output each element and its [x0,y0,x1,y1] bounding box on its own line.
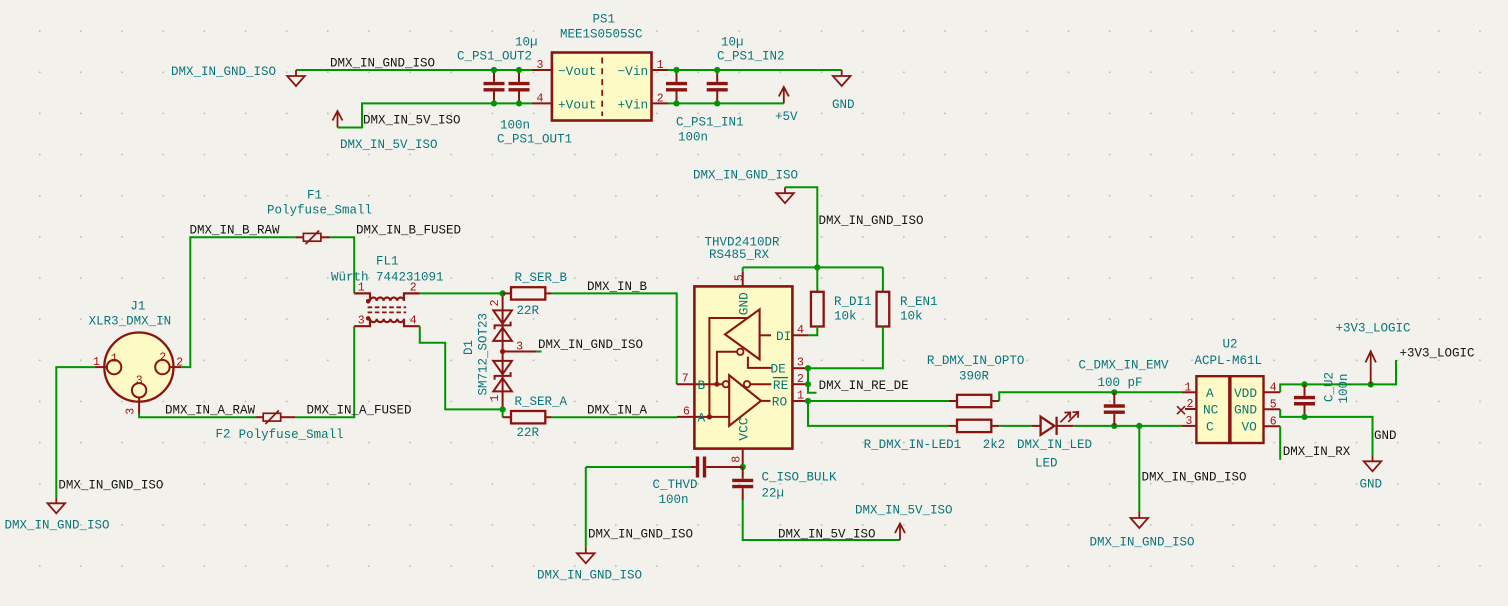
D1 pin 3 stub [503,351,537,353]
junction [673,100,679,106]
junction C_U2 top [1301,381,1307,387]
svg-text:7: 7 [682,373,689,386]
ground GND top-right [833,70,851,86]
junction GND rail [814,264,820,270]
junction RO [805,398,811,404]
FL1 core dashed lines [368,307,407,312]
power module PS1 MEE1S0505SC body [552,53,652,121]
svg-text:2: 2 [159,352,166,365]
svg-text:5: 5 [733,274,746,281]
svg-text:R_SER_B: R_SER_B [515,271,568,285]
LED DMX_IN_LED triangle [1041,417,1055,435]
R_DMX_IN-LED1 left lead [949,425,957,427]
svg-text:DMX_IN_LED: DMX_IN_LED [1017,438,1092,452]
D1 body line [502,293,504,409]
svg-text:10µ: 10µ [515,35,538,49]
junction +3V3 arrow [1368,381,1374,387]
svg-text:R_SER_A: R_SER_A [515,395,568,409]
THVD pin 3 stub [792,367,808,369]
svg-text:U2: U2 [1223,337,1238,351]
svg-text:10k: 10k [900,309,923,323]
THVD receiver input bubble (B) [723,381,729,387]
wire R_DI1 bottom to pin4 [809,327,818,336]
svg-text:R_DI1: R_DI1 [834,295,872,309]
wire pin5 drop [742,267,744,271]
U2 pin 2 no-connect cross [1177,406,1185,414]
svg-text:RS485_RX: RS485_RX [709,248,770,262]
ground U2 [1364,455,1382,471]
svg-text:DMX_IN_5V_ISO: DMX_IN_5V_ISO [778,528,876,542]
svg-text:VO: VO [1242,419,1258,434]
svg-text:DMX_IN_GND_ISO: DMX_IN_GND_ISO [1142,471,1247,485]
svg-text:PS1: PS1 [593,12,616,26]
svg-text:GND: GND [1360,477,1383,491]
J1 pin 1 stub [95,366,107,368]
svg-text:C_THVD: C_THVD [653,478,698,492]
wire R_SER_A jog [502,409,504,417]
svg-text:10µ: 10µ [721,35,744,49]
svg-text:GND: GND [736,292,751,315]
svg-text:3: 3 [358,315,365,328]
fuse F1 left lead [296,236,304,238]
LED emission arrows [1060,412,1078,422]
THVD node A dot [707,414,712,419]
svg-text:1: 1 [657,59,664,72]
svg-text:LED: LED [1035,456,1058,470]
resistor R_EN1 [877,292,890,327]
THVD pin 7 stub [677,383,695,385]
PS1 isolation dashed divider [601,58,603,117]
svg-text:6: 6 [683,405,690,418]
svg-text:DMX_IN_5V_ISO: DMX_IN_5V_ISO [340,138,438,152]
wire FL1 pin4 to R_SER_A [420,326,503,409]
wire VDD net [1280,360,1396,392]
svg-text:A: A [698,411,706,426]
junction [714,67,720,73]
wire FL1 pin2 to R_SER_B [420,292,503,294]
svg-text:DI: DI [776,329,791,344]
wire DMX_IN_B_RAW [181,237,295,367]
wire to LED [999,425,1032,427]
svg-text:DE: DE [771,362,787,377]
D1 upper TVS pair [493,310,512,341]
svg-text:B: B [698,378,706,393]
wire LED cathode net [1073,425,1182,427]
svg-text:1: 1 [358,282,365,295]
svg-text:3: 3 [1186,415,1193,428]
power flag +3V3_LOGIC arrow [1366,351,1376,384]
svg-text:10k: 10k [834,309,857,323]
svg-text:SM712_SOT23: SM712_SOT23 [476,313,490,396]
THVD driver inverting output line [717,352,737,384]
junction EMV top [1111,389,1117,395]
THVD node B dot [714,382,719,387]
PS1 pin 4 stub [532,102,552,104]
RE overline [773,377,788,379]
svg-text:2: 2 [489,299,502,306]
svg-text:DMX_IN_B_RAW: DMX_IN_B_RAW [190,224,281,238]
wire GND rail over THVD [743,266,883,268]
svg-text:1: 1 [797,390,804,403]
J1 pin 2 stub [170,366,182,368]
choke FL1 bottom winding [354,319,420,327]
svg-text:C_PS1_IN1: C_PS1_IN1 [676,115,744,129]
polyfuse F2 [263,410,281,424]
J1 pin 3 contact circle [132,383,146,397]
svg-text:C_U2: C_U2 [1323,372,1337,402]
svg-text:DMX_IN_RX: DMX_IN_RX [1283,445,1351,459]
LED cathode lead [1057,425,1074,427]
svg-text:1: 1 [489,395,502,402]
svg-text:VDD: VDD [1234,386,1257,401]
svg-text:+Vin: +Vin [618,97,649,112]
junction [516,67,522,73]
svg-text:2: 2 [657,93,664,106]
J1 pin 2 contact circle [155,360,169,374]
svg-text:DMX_IN_GND_ISO: DMX_IN_GND_ISO [819,214,924,228]
wire opto anode [999,392,1182,401]
capacitor C_PS1_IN2 [707,70,728,103]
svg-text:DMX_IN_GND_ISO: DMX_IN_GND_ISO [693,168,798,182]
junction gnd drop [1136,423,1142,429]
wire DMX_IN_A_RAW [139,414,255,417]
THVD receiver triangle [729,375,761,426]
svg-text:−Vin: −Vin [618,64,649,79]
wire THVD GND net [785,187,817,267]
LED anode lead [1032,425,1041,427]
J1 pin 3 stub [138,398,140,414]
svg-text:RE: RE [773,378,789,393]
svg-text:R_DMX_IN-LED1: R_DMX_IN-LED1 [864,438,962,452]
THVD A line [694,416,729,418]
fuse F2 left lead [255,416,263,418]
THVD driver non-inverting output line [709,318,747,417]
svg-text:F2: F2 [216,428,231,442]
resistor R_DMX_IN_OPTO [957,395,991,407]
svg-text:3: 3 [537,59,544,72]
junction D1 top [500,290,506,296]
svg-text:8: 8 [731,456,744,463]
THVD DI line [760,334,771,336]
junction DE [805,365,811,371]
R_SER_A left lead [503,416,511,418]
resistor R_SER_B [511,287,545,299]
svg-text:−Vout: −Vout [558,64,596,79]
svg-text:C_DMX_IN_EMV: C_DMX_IN_EMV [1079,359,1170,373]
wire RO to R_DMX_IN_OPTO [808,400,949,402]
wire J1 pin1 to ground [56,367,95,497]
wire R_EN1 bottom to pin3 [808,327,883,369]
svg-text:4: 4 [537,93,544,106]
capacitor C_THVD [691,457,743,478]
power flag DMX_IN_5V_ISO arrow (right) [895,524,905,541]
svg-text:DMX_IN_A_FUSED: DMX_IN_A_FUSED [307,404,412,418]
svg-text:A: A [1206,386,1214,401]
resistor R_DI1 [811,292,824,327]
svg-text:Polyfuse_Small: Polyfuse_Small [267,204,372,218]
THVD pin 4 stub [792,334,808,336]
wire D1 pin3 to label [536,351,541,353]
svg-text:C_ISO_BULK: C_ISO_BULK [762,470,838,484]
ground above THVD [776,187,794,203]
svg-text:3: 3 [124,408,137,415]
choke FL1 top winding [354,293,420,301]
svg-text:VCC: VCC [736,417,751,440]
U2 pin 6 stub [1264,425,1281,427]
svg-text:DMX_IN_GND_ISO: DMX_IN_GND_ISO [330,56,435,70]
wire DMX_IN_5V_ISO bottom rail to PS1 [338,103,532,127]
PS1 pin 2 stub [652,102,669,104]
PS1 pin 1 stub [652,69,669,71]
svg-text:D1: D1 [462,340,476,355]
svg-text:DMX_IN_GND_ISO: DMX_IN_GND_ISO [1090,535,1195,549]
svg-text:DMX_IN_GND_ISO: DMX_IN_GND_ISO [58,478,163,492]
wire DMX_IN_B_FUSED [330,237,354,293]
svg-text:100n: 100n [659,493,689,507]
wire LED gnd drop [1138,426,1140,512]
R_DMX_IN_OPTO right lead [991,400,999,402]
connector J1 XLR3_DMX_IN body [104,333,173,402]
ground top-left [287,70,305,86]
svg-text:DMX_IN_B: DMX_IN_B [587,280,648,294]
THVD pin 2 stub [792,383,808,385]
wire C_ISO_BULK to 5V [743,500,900,540]
wire R_EN1 top lead [882,267,884,291]
power flag DMX_IN_5V_ISO arrow [333,111,343,128]
svg-text:Würth 744231091: Würth 744231091 [331,270,444,284]
THVD pin 1 stub [792,400,808,402]
THVD driver triangle [725,309,760,359]
svg-text:+5V: +5V [775,110,798,124]
svg-text:390R: 390R [959,369,990,383]
capacitor C_PS1_IN1 [666,70,687,103]
svg-text:+3V3_LOGIC: +3V3_LOGIC [1400,346,1475,360]
FL1 polarity dot bottom [366,316,371,321]
junction VCC pin8 [740,464,746,470]
junction C_U2 bottom [1301,414,1307,420]
U2 pin 4 stub [1264,391,1281,393]
LED cathode bar [1055,417,1057,435]
svg-text:2: 2 [1187,398,1194,411]
resistor R_SER_A [511,411,545,423]
wire U2 GND net [1280,409,1372,455]
R_DMX_IN-LED1 right lead [991,425,999,427]
svg-text:22R: 22R [517,304,540,318]
optocoupler U2 left cell [1196,376,1229,443]
svg-text:1: 1 [1185,381,1192,394]
svg-text:GND: GND [832,98,855,112]
svg-text:DMX_IN_A: DMX_IN_A [587,404,648,418]
svg-text:100 pF: 100 pF [1098,376,1143,390]
svg-text:DMX_IN_GND_ISO: DMX_IN_GND_ISO [5,518,110,532]
U2 pin 5 stub [1264,408,1281,410]
svg-text:DMX_IN_5V_ISO: DMX_IN_5V_ISO [363,113,461,127]
junction [714,100,720,106]
wire C_THVD left [586,466,691,468]
THVD RO line [761,400,771,402]
svg-text:DMX_IN_GND_ISO: DMX_IN_GND_ISO [537,568,642,582]
svg-text:+Vout: +Vout [558,97,596,112]
svg-text:100n: 100n [1337,373,1351,403]
capacitor C_DMX_IN_EMV [1104,392,1125,426]
svg-text:4: 4 [797,324,804,337]
resistor R_DMX_IN-LED1 [957,420,991,432]
svg-text:2: 2 [410,282,417,295]
svg-text:1: 1 [111,353,118,366]
wire DMX_IN_GND_ISO top rail [296,69,532,71]
THVD RE line [750,383,771,385]
svg-text:DMX_IN_GND_ISO: DMX_IN_GND_ISO [171,65,276,79]
R_DMX_IN_OPTO left lead [949,400,957,402]
junction RE [805,381,811,387]
polyfuse F1 [303,231,321,245]
svg-text:4: 4 [410,315,417,328]
U2 pin 3 stub [1182,425,1196,427]
R_SER_B left lead [503,292,511,294]
svg-text:MEE1S0505SC: MEE1S0505SC [560,27,643,41]
svg-text:DMX_IN_GND_ISO: DMX_IN_GND_ISO [588,528,693,542]
wire DMX_IN_A_FUSED [295,326,354,417]
svg-text:R_EN1: R_EN1 [900,295,938,309]
svg-text:4: 4 [1270,381,1277,394]
wire RO branch down [808,401,949,426]
svg-text:3: 3 [136,374,143,387]
capacitor C_U2 [1294,384,1315,417]
PS1 pin 3 stub [532,69,552,71]
wire DMX_IN_A [552,416,677,418]
THVD RE bubble [744,381,750,387]
wire DMX_IN_RX [1279,426,1281,460]
wire +5V input top rail [668,69,842,71]
D1 pin3 junction dot [500,349,505,354]
svg-text:22R: 22R [517,426,540,440]
svg-text:GND: GND [1374,429,1397,443]
svg-text:3: 3 [797,357,804,370]
junction D1 bottom [500,406,506,412]
fuse F1 right lead [321,236,330,238]
junction EMV bottom [1111,423,1117,429]
capacitor C_PS1_OUT2 [484,70,505,103]
svg-text:RO: RO [772,395,788,410]
power flag +5V arrow [779,87,789,104]
svg-text:DMX_IN_5V_ISO: DMX_IN_5V_ISO [855,503,953,517]
junction [491,100,497,106]
THVD driver inverting bubble [737,349,743,355]
THVD pin 8 stub [742,449,744,467]
svg-text:2k2: 2k2 [983,438,1006,452]
svg-text:C_PS1_IN2: C_PS1_IN2 [717,49,785,63]
svg-text:DMX_IN_B_FUSED: DMX_IN_B_FUSED [356,224,461,238]
junction [491,67,497,73]
svg-text:5: 5 [1270,398,1277,411]
R_SER_B right lead [545,292,551,294]
U2 pin 2 stub [1185,408,1196,410]
svg-text:FL1: FL1 [376,254,399,268]
J1 pin 1 contact circle [107,360,121,374]
svg-text:C_PS1_OUT2: C_PS1_OUT2 [457,49,532,63]
svg-text:2: 2 [797,373,804,386]
THVD pin 6 stub [677,416,694,418]
svg-text:NC: NC [1203,403,1219,418]
transceiver U1 THVD2410DR body [694,286,792,448]
svg-text:GND: GND [1234,403,1257,418]
svg-text:DMX_IN_RE_DE: DMX_IN_RE_DE [819,379,909,393]
ground LED net [1131,512,1149,528]
FL1 polarity dot top [366,299,371,304]
svg-text:XLR3_DMX_IN: XLR3_DMX_IN [89,314,172,328]
capacitor C_ISO_BULK [732,467,753,500]
wire DMX_IN_B [552,293,677,384]
ground below J1 [48,497,66,513]
THVD B line [694,383,722,385]
svg-text:22µ: 22µ [762,486,785,500]
svg-text:DMX_IN_GND_ISO: DMX_IN_GND_ISO [538,338,643,352]
svg-text:3: 3 [516,341,523,354]
svg-text:+3V3_LOGIC: +3V3_LOGIC [1336,321,1411,335]
svg-text:R_DMX_IN_OPTO: R_DMX_IN_OPTO [927,354,1025,368]
optocoupler U2 right cell [1230,376,1263,443]
THVD DE enable line [748,357,772,368]
U2 pin 1 stub [1182,391,1196,393]
ground C_THVD [577,547,595,563]
wire C_THVD gnd drop [585,467,587,547]
svg-text:DMX_IN_A_RAW: DMX_IN_A_RAW [165,404,256,418]
capacitor C_PS1_OUT1 [509,70,530,103]
wire DE-RE tie [808,368,817,393]
junction [516,100,522,106]
svg-text:100n: 100n [678,130,708,144]
svg-text:ACPL-M61L: ACPL-M61L [1195,354,1263,368]
fuse F2 right lead [281,416,295,418]
svg-text:C: C [1206,419,1214,434]
D1 lower TVS pair [493,361,512,392]
R_SER_A right lead [545,416,551,418]
svg-text:100n: 100n [500,118,530,132]
junction [673,67,679,73]
svg-text:6: 6 [1270,415,1277,428]
wire +5V input bottom rail [668,102,784,104]
svg-text:F1: F1 [307,188,322,202]
wire R_DI1 top lead [816,267,818,291]
svg-text:Polyfuse_Small: Polyfuse_Small [239,428,344,442]
svg-text:J1: J1 [130,300,145,314]
THVD pin 5 stub [742,271,744,286]
svg-text:C_PS1_OUT1: C_PS1_OUT1 [497,132,572,146]
